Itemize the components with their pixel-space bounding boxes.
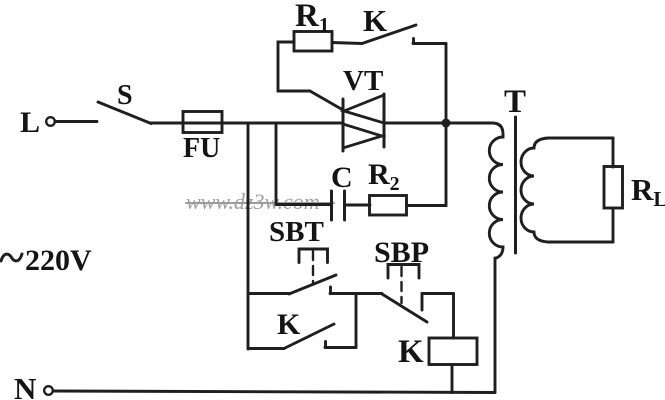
watermark www.dz3w.com: [186, 189, 320, 214]
svg-text:RL: RL: [631, 172, 665, 211]
svg-text:K: K: [277, 308, 301, 341]
svg-text:T: T: [504, 84, 526, 120]
wire SBP to coil corner: [422, 292, 454, 295]
wire RL to bottom: [612, 208, 615, 242]
SBP plunger dashed: [400, 267, 402, 303]
resistor R1 left wire: [278, 42, 310, 91]
watermark strike line: [186, 202, 334, 204]
triac gate wire: [310, 91, 343, 110]
wire coil to N line: [451, 365, 454, 393]
svg-text:C: C: [331, 161, 353, 194]
label ~220V tilde: [1, 254, 22, 261]
svg-text:N: N: [14, 371, 36, 400]
wire capacitor branch horizontal: [276, 203, 331, 206]
wire through FU (main line to triac): [184, 122, 343, 125]
capacitor C right plate: [343, 191, 346, 220]
switch S blade: [98, 102, 151, 124]
terminal L: [46, 117, 55, 126]
resistor R2 body: [370, 196, 407, 216]
K contact fixed tick: [324, 342, 327, 348]
terminal N: [44, 386, 53, 395]
svg-text:K: K: [363, 3, 387, 38]
wire: vertical from main line down to capacitor branch: [275, 123, 278, 205]
wire left to SBT: [248, 292, 289, 295]
transformer T primary winding: [489, 123, 503, 259]
wire R1 to switch K: [332, 43, 362, 44]
SBT plunger dashed: [312, 251, 314, 284]
wire K contact to corner: [413, 42, 446, 45]
switch K (top) blade: [362, 25, 416, 44]
SBT fixed contact tick: [329, 287, 332, 294]
svg-text:K: K: [398, 334, 424, 370]
transformer T secondary winding: [521, 138, 548, 242]
svg-text:www.dz3w.com: www.dz3w.com: [186, 189, 320, 214]
svg-text:R1: R1: [295, 0, 329, 37]
triac VT lower triangle: [343, 124, 382, 148]
wire junction to transformer: [446, 122, 492, 125]
svg-text:220V: 220V: [25, 244, 92, 277]
junction node dot: [442, 119, 451, 128]
svg-text:L: L: [20, 106, 40, 139]
SBP fixed contact stub: [421, 294, 424, 311]
svg-text:SBT: SBT: [269, 216, 324, 248]
wire secondary bottom: [548, 241, 613, 244]
wire SBT contact to SBP: [330, 292, 382, 295]
relay contact K blade: [284, 324, 334, 349]
wire down to relay coil: [452, 294, 455, 339]
wire C to R2: [345, 204, 371, 207]
push button SBP blade: [382, 294, 427, 322]
op: triac VT left bar: [342, 99, 345, 151]
fuse FU body: [183, 112, 222, 133]
node: vertical wire from main line down to SBT/K branch: [247, 123, 250, 349]
wire R2 to junction riser: [407, 127, 447, 206]
svg-text:SBP: SBP: [374, 236, 429, 269]
wire S to FU: [151, 122, 184, 125]
wire corner down to junction: [445, 44, 448, 124]
svg-text:S: S: [117, 80, 133, 111]
triac VT upper triangle: [344, 95, 384, 123]
wire L to switch S: [55, 120, 97, 123]
wire secondary top: [548, 137, 613, 140]
switch K fixed contact tick: [412, 39, 415, 44]
relay coil K body: [429, 338, 477, 365]
triac VT right bar: [383, 94, 386, 147]
svg-text:R2: R2: [368, 158, 400, 195]
svg-text:VT: VT: [343, 65, 383, 97]
wire primary bottom down to N line: [494, 258, 497, 393]
capacitor C left plate: [330, 191, 333, 220]
resistor R1 body: [294, 32, 332, 52]
svg-text:FU: FU: [183, 133, 220, 164]
push button SBP cap: [388, 265, 419, 279]
transformer T core: [514, 117, 517, 253]
push button SBT cap: [299, 249, 328, 263]
relay contact K (bottom) left wire: [248, 347, 284, 350]
push button SBT blade: [289, 275, 336, 294]
wire N bottom line: [53, 391, 495, 393]
wire riser up to SBT/SBP wire: [355, 294, 358, 348]
wire triac to junction: [384, 122, 446, 125]
wire secondary right down to RL: [612, 138, 615, 167]
resistor RL body: [604, 167, 623, 209]
wire K contact to riser: [325, 346, 356, 349]
